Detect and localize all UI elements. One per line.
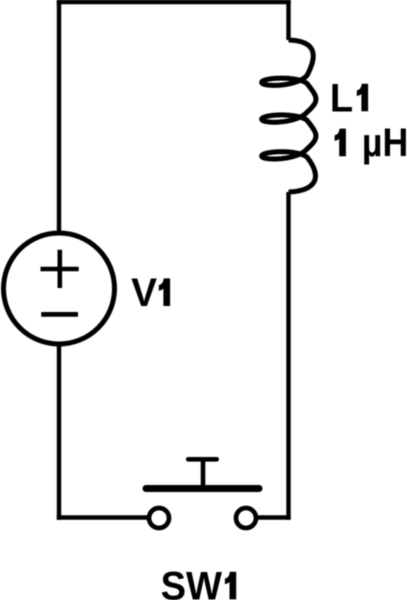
voltage source V1 circle bbox=[4, 233, 115, 344]
wire right upper bbox=[286, 0, 290, 40]
switch SW1 cap bar bbox=[188, 457, 217, 462]
svg-text:SW: SW bbox=[161, 565, 222, 600]
wire right lower bbox=[286, 192, 290, 520]
switch SW1 stem bbox=[201, 459, 206, 488]
svg-text:µH: µH bbox=[362, 121, 407, 165]
switch SW1 left terminal bbox=[149, 508, 169, 528]
wire left lower bbox=[57, 344, 61, 520]
inductor L1 coil bbox=[262, 40, 316, 192]
switch SW1 bar bbox=[146, 485, 259, 492]
svg-text:V: V bbox=[131, 270, 157, 315]
wire top bbox=[57, 0, 291, 4]
V1 plus sign bbox=[41, 250, 79, 288]
wire bottom right bbox=[258, 515, 291, 519]
switch SW1 right terminal bbox=[236, 508, 256, 528]
wire bottom left bbox=[57, 515, 148, 519]
V1 minus sign bbox=[41, 312, 78, 317]
svg-text:L: L bbox=[330, 76, 353, 120]
label L1 value 1 uH bbox=[335, 129, 346, 157]
wire left upper bbox=[57, 0, 61, 233]
